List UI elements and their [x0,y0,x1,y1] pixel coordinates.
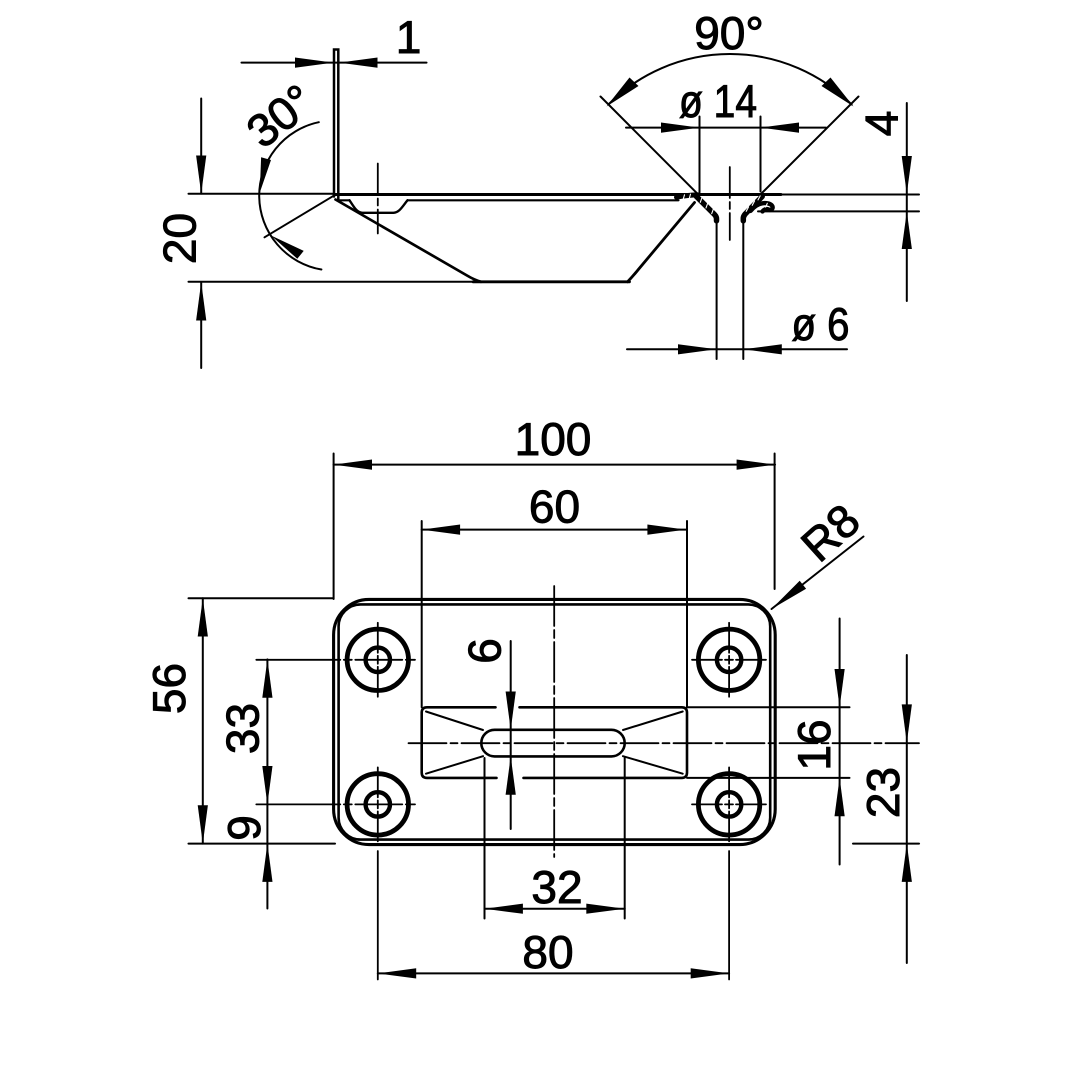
dim 56 [143,598,335,843]
hole bottom-left [256,767,415,979]
svg-text:9: 9 [218,815,270,841]
hole top-right [692,623,766,697]
dim 1 arrows [295,58,378,68]
30deg arc [259,122,321,269]
dim phi14 arrows [661,123,799,133]
dim 4 extension (cone bottom) [758,210,919,212]
svg-text:100: 100 [515,413,592,465]
30deg leg line [265,195,335,237]
top surface extension (left, 20-dim / 30deg leg) [189,193,335,195]
svg-text:33: 33 [217,703,269,754]
slot (finger hole) [481,730,624,757]
dim phi6 arrows [678,344,782,354]
plate outer outline [334,599,776,844]
underside line [337,199,350,201]
pocket right wall [628,203,695,282]
vertical centerline [553,586,555,857]
hole top-left [256,623,415,697]
dim 20 arrows [196,156,206,321]
svg-text:1: 1 [396,11,422,63]
90deg arc [608,54,851,104]
countersink centerline [729,167,731,240]
svg-text:ø 6: ø 6 [792,298,850,350]
slot horizontal centerline [409,742,920,744]
dimple under left hole (countersink back) [350,200,408,213]
top surface extension (right, to 4-dim) [781,194,919,196]
dim 80 [378,926,729,979]
dim 33 [217,659,273,804]
countersink curl right [751,203,773,211]
dim 100 [334,413,775,599]
dim 6 (slot height) [459,638,516,829]
recess bottom extension (16-dim) [687,777,850,779]
dim phi6 line [627,348,847,350]
recess corner-to-slot lines [426,712,483,731]
recess outline [422,707,497,778]
countersink cone+neck left [696,196,716,220]
svg-text:16: 16 [788,719,840,770]
dim 32 [485,758,625,919]
svg-text:80: 80 [522,926,573,978]
dim 20 line [200,99,202,194]
countersink hatched sheet left [677,195,698,197]
dim 60 [422,481,687,708]
pocket bottom line (contour) [473,280,630,283]
svg-text:56: 56 [143,663,195,714]
pocket left wall (30deg) [336,200,482,282]
90deg arc arrows [607,78,854,107]
svg-text:4: 4 [856,111,908,137]
recess top extension (16-dim) [687,706,850,708]
svg-text:ø 14: ø 14 [679,75,757,127]
hole bottom-right [692,767,766,979]
countersink cone+neck right [743,197,762,221]
hole wall extension lines (phi6) [716,221,718,359]
dim phi14 line [626,127,826,129]
dim 4 line [906,103,908,301]
phi14 extension lines [699,117,701,193]
30deg arrows [260,157,304,258]
svg-text:6: 6 [459,638,511,664]
hatch slashes (white) [683,194,767,214]
dim 23 [853,655,919,963]
plate inner outline [339,604,771,839]
dimple centerline [377,164,379,234]
pocket bottom extension (left, 20-dim) [189,281,474,283]
dim 9 [218,804,273,908]
svg-text:32: 32 [531,861,582,913]
svg-text:60: 60 [529,481,580,533]
R8 leader [772,494,870,609]
dim 16 [788,619,845,865]
45deg countersink extension lines [601,97,699,195]
flange (1mm wall) [334,50,338,200]
top surface line [334,193,781,196]
svg-text:23: 23 [857,767,909,818]
svg-text:20: 20 [154,213,206,264]
dim 4 arrows [902,156,912,249]
dim 1 line [242,62,427,64]
svg-text:90°: 90° [694,7,764,59]
